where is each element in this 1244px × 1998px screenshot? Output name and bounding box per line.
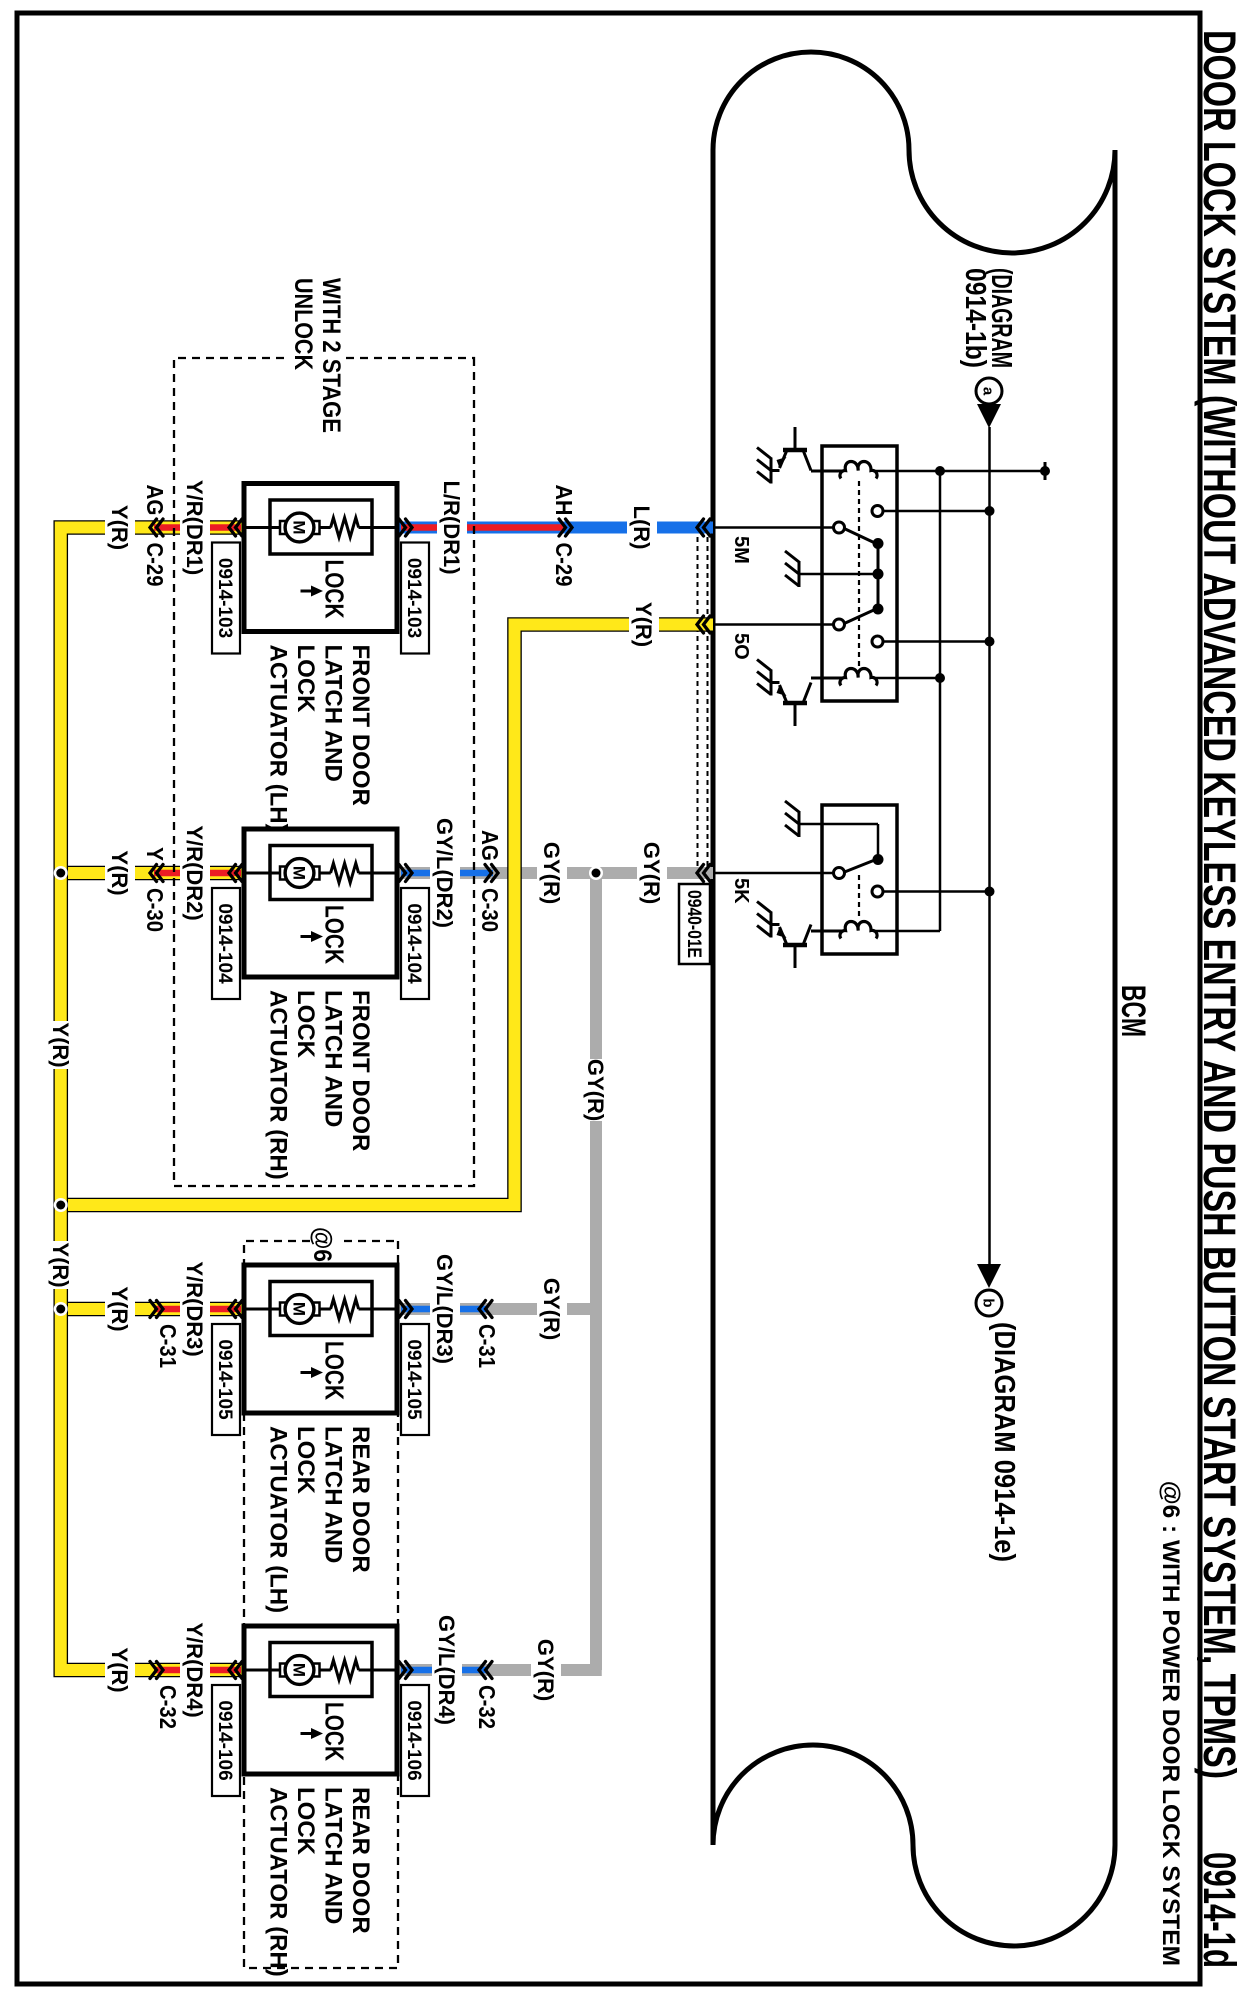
svg-text:C-31: C-31: [155, 1324, 181, 1368]
wire L/R(DR1) red stripe: [401, 524, 565, 531]
svg-text:Y(R): Y(R): [107, 1286, 132, 1331]
svg-text:Y/R(DR4): Y/R(DR4): [182, 1622, 207, 1717]
svg-text:C-30: C-30: [477, 888, 503, 932]
label Y/R(DR2): [180, 823, 210, 923]
label GY/L(DR3): [430, 1253, 460, 1365]
BCM body outline: [713, 52, 1115, 1946]
connector C-30 pin Y: [157, 865, 164, 882]
svg-text:LOCK: LOCK: [292, 1787, 319, 1856]
wire riser U1 contact B to line a: [878, 640, 990, 643]
svg-text:C-32: C-32: [474, 1685, 500, 1729]
connector C-32 top: [486, 1662, 493, 1679]
actuator box 0914-104 ACTUATOR (RH): [244, 829, 397, 977]
wire Y(R) branch col C: [68, 1302, 152, 1317]
svg-text:GY/L(DR4): GY/L(DR4): [434, 1615, 459, 1725]
wire riser U2 contact to line a: [878, 890, 990, 893]
svg-text:@6: @6: [308, 1227, 336, 1262]
svg-text:FRONT DOOR: FRONT DOOR: [347, 645, 374, 806]
label Y(R) on 5O drop: [629, 601, 659, 649]
resistor: [331, 1299, 359, 1319]
actuator box 0914-103 ACTUATOR (LH): [244, 484, 397, 632]
svg-text:Y(R): Y(R): [48, 1022, 73, 1067]
svg-text:@6 : WITH POWER DOOR LOCK SYST: @6 : WITH POWER DOOR LOCK SYSTEM: [1157, 1481, 1184, 1966]
relay U1 switch A: [842, 528, 876, 544]
connector label 0940-01E: [679, 884, 710, 964]
svg-text:GY(R): GY(R): [583, 1059, 608, 1121]
wire Y/R(DR4): [152, 1663, 242, 1678]
label GY(R) col B lower: [537, 842, 567, 904]
svg-text:GY(R): GY(R): [533, 1639, 558, 1701]
wire Y/R(DR1): [152, 520, 242, 535]
svg-text:0914-105: 0914-105: [214, 1339, 235, 1420]
svg-text:LOCK: LOCK: [320, 905, 350, 964]
connector chevron 0914-105 bottom: [236, 1301, 243, 1318]
svg-text:ACTUATOR (RH): ACTUATOR (RH): [265, 1787, 292, 1977]
svg-text:Y(R): Y(R): [107, 505, 132, 550]
svg-text:0914-104: 0914-104: [403, 903, 424, 984]
label GY/L(DR2): [430, 817, 460, 929]
svg-text:WITH 2 STAGE: WITH 2 STAGE: [317, 278, 345, 433]
wire GY/L(DR2): [397, 867, 491, 879]
relay U1 coil 1: [840, 462, 877, 479]
wire L(R): [397, 522, 713, 534]
svg-text:5O: 5O: [730, 633, 752, 660]
motor M: [313, 1664, 320, 1677]
relay U2 switch: [842, 860, 876, 874]
svg-text:a: a: [980, 387, 997, 396]
wire riser U1 contact A to line a: [878, 510, 990, 513]
resistor: [331, 1660, 359, 1680]
wire coil 2 feed: [873, 677, 940, 680]
arrow b: [977, 1264, 1001, 1288]
svg-text:0940-01E: 0940-01E: [683, 890, 704, 958]
motor M: [313, 521, 320, 534]
svg-text:GY/L(DR3): GY/L(DR3): [432, 1254, 457, 1364]
svg-text:M: M: [290, 1663, 309, 1677]
svg-text:C-29: C-29: [551, 543, 577, 587]
label Y(R) on bus 2: [46, 1241, 76, 1289]
ground: [770, 670, 773, 696]
connector C-31 bottom: [157, 1301, 164, 1318]
label L/R(DR1): [437, 478, 467, 578]
label Y(R) col A: [105, 504, 135, 552]
junction dot: [589, 866, 603, 880]
svg-text:GY/L(DR2): GY/L(DR2): [432, 818, 457, 928]
svg-text:Y(R): Y(R): [631, 602, 656, 647]
svg-text:b: b: [980, 1298, 997, 1307]
wire internal: [359, 872, 398, 875]
junction dot: [54, 1302, 68, 1316]
junction dot: [935, 466, 945, 476]
label GY(R) col B upper: [637, 842, 667, 904]
connector label 0914-103 bottom: [212, 543, 240, 654]
wire internal: [359, 1669, 398, 1672]
svg-text:M: M: [290, 1302, 309, 1316]
connector label 0914-106 bottom: [212, 1685, 240, 1796]
wire GY column C: [484, 1303, 596, 1315]
svg-text:0914-1d: 0914-1d: [1194, 1852, 1244, 1968]
lock direction arrow: [301, 1371, 313, 1374]
lock direction arrow: [301, 1732, 313, 1735]
label Y/R(DR4): [180, 1620, 210, 1720]
junction dot: [985, 506, 995, 516]
connector label 0914-105 top: [401, 1324, 429, 1435]
ground: [770, 458, 773, 484]
wire internal: [359, 1308, 398, 1311]
connector C-29 pin AG: [157, 519, 164, 536]
svg-text:ACTUATOR (LH): ACTUATOR (LH): [265, 645, 292, 832]
connector label 0914-103 top: [401, 543, 429, 654]
svg-text:0914-106: 0914-106: [214, 1700, 235, 1780]
arrow a: [977, 404, 1001, 428]
label L(R): [627, 505, 657, 551]
svg-text:Y/R(DR2): Y/R(DR2): [182, 825, 207, 920]
relay U1 box: [822, 446, 897, 701]
connector C-29 pin AH: [566, 519, 573, 536]
svg-text:REAR DOOR: REAR DOOR: [347, 1787, 374, 1934]
wire internal: [359, 526, 398, 529]
svg-text:(DIAGRAM 0914-1e): (DIAGRAM 0914-1e): [988, 1322, 1020, 1562]
svg-text:FRONT DOOR: FRONT DOOR: [347, 990, 374, 1151]
dashed group WITH 2 STAGE UNLOCK: [174, 358, 474, 1186]
wire coil bus: [939, 471, 942, 931]
svg-text:C-29: C-29: [142, 543, 168, 587]
connector chevron 0914-103 top: [406, 519, 413, 536]
svg-text:0914-103: 0914-103: [403, 558, 424, 638]
transistor: [783, 943, 807, 948]
connector chevron 5M: [704, 519, 711, 536]
connector 0940-01E dashed pair: [707, 528, 709, 873]
wire GY/L(DR4): [397, 1664, 491, 1676]
connector label 0914-106 top: [401, 1685, 429, 1796]
svg-text:LOCK: LOCK: [292, 1426, 319, 1495]
relay U2 common to ground: [877, 824, 880, 860]
svg-text:AG: AG: [142, 485, 168, 516]
svg-text:AH: AH: [551, 485, 577, 516]
wire pin 5M to U1 switch A: [713, 526, 839, 529]
label Y(R) col C: [105, 1285, 135, 1333]
wire GY(R) bus: [590, 873, 602, 1670]
junction dot: [985, 887, 995, 897]
connector chevron 0914-103 bottom: [236, 519, 243, 536]
label Y/R(DR3): [180, 1259, 210, 1359]
svg-text:0914-104: 0914-104: [214, 903, 235, 984]
motor M: [313, 1303, 320, 1316]
label GY/L(DR4): [432, 1614, 462, 1726]
label Y(R) col B: [105, 849, 135, 897]
svg-text:LOCK: LOCK: [292, 990, 319, 1059]
svg-text:C-30: C-30: [142, 888, 168, 932]
label GY(R) col C: [537, 1278, 567, 1340]
connector chevron 0914-104 top: [406, 865, 413, 882]
svg-text:LATCH AND: LATCH AND: [320, 1787, 347, 1924]
wire Y(R) main bus: [61, 528, 152, 1671]
svg-text:ACTUATOR (LH): ACTUATOR (LH): [265, 1426, 292, 1613]
wire Y(R) branch col B: [68, 866, 152, 881]
svg-text:Y(R): Y(R): [107, 850, 132, 895]
svg-text:Y(R): Y(R): [107, 1647, 132, 1692]
svg-text:LOCK: LOCK: [320, 560, 350, 619]
transistor: [783, 701, 807, 706]
relay U2 coil: [840, 922, 877, 939]
ground: [770, 912, 773, 938]
label Y(R) on bus 1: [46, 1021, 76, 1069]
relay U1 coil 2: [840, 669, 877, 686]
svg-text:LOCK: LOCK: [292, 645, 319, 714]
junction dot: [935, 673, 945, 683]
label Y(R) col D: [105, 1646, 135, 1694]
wire Y(R) from 5O: [68, 625, 713, 1206]
svg-text:DOOR LOCK SYSTEM (WITHOUT ADVA: DOOR LOCK SYSTEM (WITHOUT ADVANCED KEYLE…: [1194, 30, 1244, 1779]
label Y/R(DR1): [180, 478, 210, 578]
ground: [798, 561, 801, 587]
terminal dot: [1040, 466, 1050, 476]
svg-text:LOCK: LOCK: [320, 1702, 350, 1761]
junction dot: [54, 1198, 68, 1212]
svg-text:5M: 5M: [730, 536, 752, 564]
svg-text:M: M: [290, 866, 309, 880]
wire Y/R(DR2): [152, 866, 242, 881]
connector C-32 bottom: [157, 1662, 164, 1679]
connector label 0914-105 bottom: [212, 1324, 240, 1435]
lock direction arrow: [301, 935, 313, 938]
svg-text:BCM: BCM: [1114, 985, 1152, 1037]
actuator inner assembly: [270, 846, 372, 900]
wire GY/L(DR3): [397, 1303, 491, 1315]
terminal tick: [1044, 462, 1047, 480]
svg-text:Y(R): Y(R): [48, 1242, 73, 1287]
relay U1 common link to ground: [877, 544, 880, 610]
svg-text:L/R(DR1): L/R(DR1): [439, 480, 464, 574]
actuator box 0914-105 ACTUATOR (LH): [244, 1265, 397, 1413]
connector chevron 0914-105 top: [406, 1301, 413, 1318]
svg-text:GY(R): GY(R): [639, 842, 664, 904]
connector label 0914-104 bottom: [212, 888, 240, 999]
relay U1 switch B: [842, 609, 876, 625]
svg-text:0914-105: 0914-105: [403, 1339, 424, 1420]
relay U2 mechanical dashed link: [858, 875, 860, 920]
lock direction arrow: [301, 590, 313, 593]
net A line from diagram a to b: [988, 427, 991, 1264]
svg-text:LOCK: LOCK: [320, 1341, 350, 1400]
svg-text:GY(R): GY(R): [539, 842, 564, 904]
connector chevron 0914-106 top: [406, 1662, 413, 1679]
svg-text:Y/R(DR3): Y/R(DR3): [182, 1261, 207, 1356]
dashed group @6: [244, 1241, 398, 1968]
svg-text:C-31: C-31: [474, 1324, 500, 1368]
svg-text:UNLOCK: UNLOCK: [289, 278, 317, 370]
svg-text:0914-1b): 0914-1b): [959, 268, 991, 368]
svg-text:0914-103: 0914-103: [214, 558, 235, 638]
label GY(R) on bus: [581, 1059, 611, 1121]
svg-text:LATCH AND: LATCH AND: [320, 645, 347, 782]
relay U2 box: [822, 805, 897, 954]
wire pin 5K to U2 switch: [713, 872, 839, 875]
svg-text:LATCH AND: LATCH AND: [320, 1426, 347, 1563]
svg-text:5K: 5K: [730, 878, 752, 904]
wire coil supply: [873, 470, 1045, 473]
svg-text:AG: AG: [477, 830, 503, 861]
wire pin 5O to U1 switch B: [713, 623, 839, 626]
svg-text:GY(R): GY(R): [539, 1278, 564, 1340]
actuator box 0914-106 ACTUATOR (RH): [244, 1626, 397, 1774]
wire Y/R(DR3): [152, 1302, 242, 1317]
wire GY column B (5K): [484, 867, 713, 879]
svg-text:ACTUATOR (RH): ACTUATOR (RH): [265, 990, 292, 1180]
label GY(R) col D: [531, 1639, 561, 1701]
transistor: [783, 448, 807, 453]
connector C-30 pin AG: [492, 865, 499, 882]
actuator inner assembly: [270, 1282, 372, 1336]
connector chevron 5O: [704, 616, 711, 633]
connector chevron 5K: [704, 865, 711, 882]
connector label 0914-104 top: [401, 888, 429, 999]
wire U2 coil feed: [873, 930, 940, 933]
connector chevron 0914-106 bottom: [236, 1662, 243, 1679]
relay U1 mechanical dashed link: [858, 481, 860, 668]
svg-text:0914-106: 0914-106: [403, 1700, 424, 1780]
svg-text:LATCH AND: LATCH AND: [320, 990, 347, 1127]
ground: [798, 811, 801, 837]
wire GY column D: [484, 1664, 602, 1676]
junction dot: [985, 637, 995, 647]
resistor: [331, 518, 359, 538]
svg-text:C-32: C-32: [155, 1685, 181, 1729]
junction dot: [54, 866, 68, 880]
svg-text:L(R): L(R): [629, 506, 654, 550]
svg-text:REAR DOOR: REAR DOOR: [347, 1426, 374, 1573]
svg-text:Y: Y: [142, 847, 168, 861]
motor M: [313, 867, 320, 880]
connector chevron 0914-104 bottom: [236, 865, 243, 882]
resistor: [331, 863, 359, 883]
actuator inner assembly: [270, 500, 372, 554]
svg-text:Y/R(DR1): Y/R(DR1): [182, 480, 207, 575]
connector C-31 top: [486, 1301, 493, 1318]
actuator inner assembly: [270, 1643, 372, 1697]
svg-text:M: M: [290, 520, 309, 534]
